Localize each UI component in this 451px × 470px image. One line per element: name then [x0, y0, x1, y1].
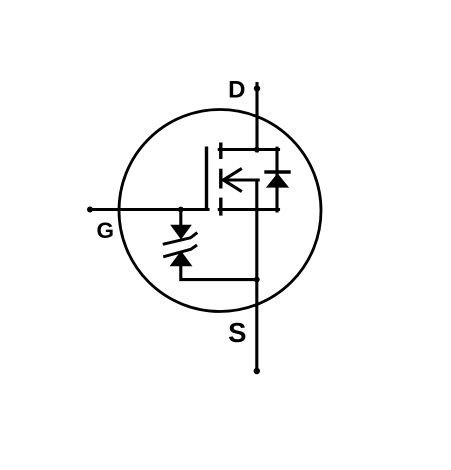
svg-text:S: S — [228, 317, 246, 348]
svg-text:D: D — [228, 77, 245, 104]
svg-text:G: G — [96, 218, 114, 243]
